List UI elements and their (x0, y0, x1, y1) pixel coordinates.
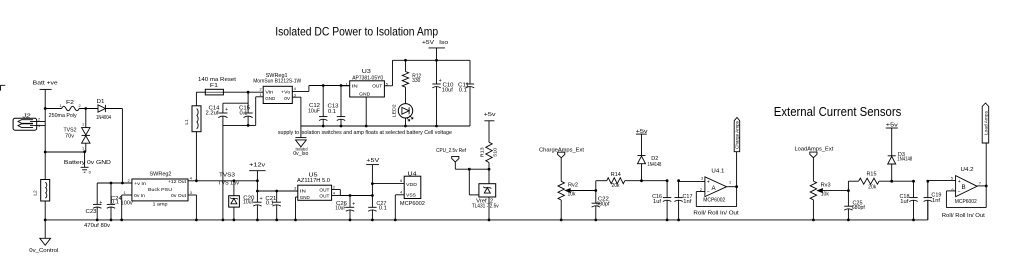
diode D3 1N4148 clamp (888, 155, 896, 157)
wire: main 0v bus (45, 219, 928, 221)
svg-text:B: B (962, 184, 966, 191)
svg-text:U4.1: U4.1 (711, 168, 724, 174)
wire: +12 column up to L1 (195, 132, 197, 181)
svg-text:F1: F1 (210, 83, 218, 89)
capacitor C24 0.1 100v (110, 183, 112, 204)
svg-text:3: 3 (701, 177, 703, 181)
svg-text:R15: R15 (867, 172, 877, 178)
svg-text:2: 2 (78, 104, 80, 108)
junction at Batt+ve column (44, 107, 47, 110)
svg-text:7: 7 (979, 181, 981, 185)
svg-text:10uf: 10uf (243, 200, 254, 206)
svg-text:+: + (958, 179, 961, 185)
svg-text:0v_Iso: 0v_Iso (293, 151, 308, 157)
svg-text:supply to isolation switches a: supply to isolation switches and amp flo… (278, 130, 452, 136)
svg-text:20k: 20k (868, 184, 876, 190)
svg-text:VSS: VSS (406, 192, 417, 198)
svg-text:Charge Amps: Charge Amps (735, 121, 740, 149)
wire: SWReg1 0V down to iso 0v rail (292, 96, 301, 98)
TVS2 70v bidirectional (85, 109, 87, 128)
svg-text:70v: 70v (65, 133, 74, 139)
wire: +batt into SWReg2 +v In (97, 182, 132, 184)
svg-text:+: + (352, 201, 355, 207)
svg-text:1: 1 (38, 124, 40, 128)
svg-text:330: 330 (412, 78, 420, 84)
svg-text:MCP6002: MCP6002 (955, 199, 977, 205)
svg-text:1uf: 1uf (653, 199, 662, 205)
svg-text:GND: GND (359, 92, 370, 98)
ground 0v_Iso isolated (300, 126, 302, 138)
wire: +5 control from U5 (340, 195, 372, 197)
svg-text:Roll/ Roll In/ Out: Roll/ Roll In/ Out (693, 211, 739, 217)
svg-text:3: 3 (294, 186, 296, 190)
svg-text:4: 4 (333, 192, 335, 196)
wire: SWReg2 0v Out down to bus (188, 194, 196, 196)
wire: U4.1 output (727, 186, 737, 188)
wire: SWReg1 input-side 0v return (223, 124, 256, 126)
svg-text:Battery 0v GND: Battery 0v GND (64, 160, 111, 166)
svg-text:L2: L2 (33, 190, 39, 196)
resistor R15 20k (859, 178, 880, 184)
wire: U5 OUT pins tied (332, 189, 341, 191)
wire: J2 pin2 (30, 121, 45, 123)
svg-text:Iso: Iso (439, 40, 448, 46)
svg-text:VDD: VDD (406, 182, 417, 188)
svg-text:TVS 16v: TVS 16v (218, 180, 240, 186)
resistor R14 20k (607, 178, 625, 184)
svg-text:SWReg2: SWReg2 (150, 172, 172, 178)
svg-text:Rv2: Rv2 (568, 183, 578, 189)
svg-text:U4.2: U4.2 (961, 167, 974, 173)
svg-text:1: 1 (729, 180, 731, 184)
inductor L2 (44, 152, 46, 180)
wire: +12 down to U5 feed line (256, 181, 258, 191)
potentiometer Rv3 10k (810, 181, 816, 200)
wire: battery column down (44, 109, 46, 153)
svg-text:0.1: 0.1 (379, 206, 387, 212)
svg-text:TL431 - 2.5v: TL431 - 2.5v (472, 203, 499, 209)
wire: F1 to SWReg1 Vin (223, 91, 263, 93)
label box Charge Amps (734, 117, 740, 151)
svg-text:0v Out: 0v Out (171, 193, 187, 199)
wire: +5 to U4 VDD (372, 183, 404, 185)
svg-text:4: 4 (400, 190, 402, 194)
svg-text:Vin: Vin (265, 89, 273, 95)
svg-text:0.1: 0.1 (328, 109, 336, 115)
svg-text:250ma Poly: 250ma Poly (49, 113, 77, 119)
svg-text:External Current Sensors: External Current Sensors (774, 105, 902, 119)
svg-text:100v: 100v (121, 201, 134, 207)
svg-text:20k: 20k (612, 183, 620, 189)
svg-text:GND: GND (265, 96, 275, 102)
svg-text:2: 2 (333, 185, 335, 189)
svg-text:0v_Control: 0v_Control (29, 248, 58, 254)
svg-text:4: 4 (190, 177, 192, 181)
svg-text:OUT: OUT (319, 194, 329, 200)
diode D2 1N4148 clamp (638, 155, 646, 157)
wiper of Rv2 (565, 189, 595, 193)
svg-text:Isolated DC Power to Isolation: Isolated DC Power to Isolation Amp (275, 24, 438, 38)
svg-text:AZ1117H 5.0: AZ1117H 5.0 (297, 178, 330, 184)
wire: U4 VSS to bus (395, 194, 404, 196)
wire: U3 GND down to iso 0v rail (365, 97, 367, 126)
junction: TVS2 top tap (84, 107, 87, 110)
svg-text:+5V: +5V (366, 158, 380, 164)
svg-text:10uf: 10uf (442, 88, 454, 94)
svg-text:Batt +ve: Batt +ve (33, 80, 58, 86)
svg-text:F2: F2 (66, 100, 74, 106)
svg-text:MornSun B1212S-1W: MornSun B1212S-1W (253, 79, 301, 85)
svg-text:0.1: 0.1 (459, 88, 467, 94)
sheet border marker (1, 85, 6, 90)
resistor R12 330 (405, 60, 407, 71)
svg-text:1nf: 1nf (932, 198, 941, 204)
svg-text:GND: GND (300, 195, 310, 201)
wire: U5 GND to bus (296, 196, 298, 198)
svg-text:+5v: +5v (886, 122, 898, 128)
inductor L1 (192, 106, 201, 132)
resistor R13 510 (486, 142, 492, 162)
label box Load Amps (982, 103, 989, 143)
svg-text:0V: 0V (284, 96, 291, 102)
capacitor C14 2.2uf (247, 92, 249, 113)
svg-text:Buck PSU: Buck PSU (148, 187, 172, 193)
svg-text:10uF: 10uF (335, 206, 346, 212)
wire: wiper up to signal rail (595, 181, 597, 191)
wire: to U4.1 +input (679, 180, 705, 182)
potentiometer Rv2 10k (558, 181, 564, 200)
wire: J2 pin1 (30, 125, 45, 127)
svg-text:CPU_2.5v Ref: CPU_2.5v Ref (436, 148, 466, 154)
svg-text:2.2uf: 2.2uf (206, 110, 220, 116)
svg-text:1: 1 (82, 123, 84, 127)
svg-text:+: + (225, 107, 228, 113)
wire: battery rail y=108.5 (45, 108, 61, 110)
svg-text:Load Amps: Load Amps (984, 111, 989, 135)
svg-text:C23: C23 (86, 209, 97, 215)
svg-text:2: 2 (259, 88, 261, 92)
svg-text:5: 5 (951, 177, 953, 181)
wire: U3 OUT up to +5iso rail (384, 85, 392, 87)
wire: U4.2 output (977, 185, 986, 187)
svg-text:LED2: LED2 (392, 104, 397, 117)
svg-text:1N4148: 1N4148 (647, 162, 661, 168)
svg-text:1 amp: 1 amp (153, 202, 168, 208)
svg-text:2: 2 (128, 179, 130, 183)
wire: to U4.2 +input (928, 180, 956, 182)
svg-text:+v In: +v In (134, 181, 146, 187)
svg-text:1N4148: 1N4148 (897, 156, 912, 162)
wire: wiper up to load signal rail (847, 181, 849, 190)
ground 0v_Control (44, 220, 46, 238)
svg-text:680pf: 680pf (852, 205, 866, 211)
svg-text:OUT: OUT (372, 84, 382, 90)
wire: SWReg1 +Vo jog up to +12iso rail (292, 90, 309, 92)
svg-text:1: 1 (259, 93, 261, 97)
wiper of Rv3 (818, 189, 849, 193)
svg-text:U3: U3 (362, 69, 371, 75)
svg-text:+: + (707, 179, 710, 185)
LED LED2 (405, 87, 407, 103)
svg-text:+5v: +5v (484, 112, 496, 118)
svg-text:1nf: 1nf (683, 199, 692, 205)
svg-text:R13: R13 (480, 147, 485, 158)
svg-text:+Vo: +Vo (281, 89, 290, 95)
svg-text:+: + (439, 78, 442, 84)
svg-text:+: + (260, 196, 263, 202)
wire: U4.2 -input feedback (946, 190, 955, 192)
wire: battery 0v segment y=152 (45, 151, 86, 153)
svg-text:1: 1 (123, 191, 125, 195)
svg-text:470uf 80v: 470uf 80v (84, 223, 110, 229)
svg-text:L1: L1 (184, 119, 190, 125)
svg-text:TVS3: TVS3 (219, 173, 235, 179)
svg-text:510: 510 (493, 147, 498, 157)
svg-text:Rv3: Rv3 (821, 183, 831, 189)
svg-text:0.1: 0.1 (111, 200, 119, 206)
svg-text:IN: IN (352, 84, 359, 90)
svg-text:1uf: 1uf (900, 199, 909, 205)
svg-text:10uF: 10uF (308, 108, 320, 114)
svg-text:R14: R14 (611, 172, 621, 178)
svg-text:4: 4 (294, 87, 296, 91)
svg-text:OUT: OUT (319, 188, 329, 194)
wire: U3 IN (341, 85, 350, 87)
capacitor C23 470uf 80v (96, 182, 98, 184)
wire: isolated 0v rail (301, 125, 470, 127)
wire: D1 cathode to corner and down to SWReg2 +v In (105, 108, 122, 110)
svg-text:−: − (958, 190, 961, 196)
wire: +12 feed to U5 IN (257, 190, 297, 192)
svg-text:−: − (707, 189, 710, 195)
wire: ref node (455, 168, 489, 170)
shunt reference Vref_2 TL431 - 2.5v (479, 184, 496, 197)
svg-text:Roll/ Roll In/ Out: Roll/ Roll In/ Out (942, 213, 986, 219)
svg-text:MCP6002: MCP6002 (703, 198, 725, 204)
svg-text:3: 3 (190, 191, 192, 195)
svg-text:0v In: 0v In (134, 193, 145, 199)
svg-text:1: 1 (59, 104, 61, 108)
svg-text:+: + (99, 200, 102, 206)
wire: SWReg2 0v In return (122, 194, 132, 196)
svg-text:1N4004: 1N4004 (96, 115, 111, 121)
wire: +12 rail SWReg2 to +12v tap (196, 180, 257, 182)
svg-text:6: 6 (400, 179, 402, 183)
svg-text:1: 1 (82, 147, 84, 151)
svg-text:+12 Out: +12 Out (168, 179, 187, 185)
wire: U4.1 -input feedback (696, 191, 705, 193)
wire: SWReg2 +12 Out (188, 180, 196, 182)
svg-text:IN: IN (300, 188, 307, 194)
wire: C14 column to 0v bus (222, 125, 224, 219)
wire: F2 to D1 (79, 108, 98, 110)
svg-text:+5V: +5V (422, 40, 434, 46)
svg-text:MCP6002: MCP6002 (400, 201, 425, 207)
svg-text:+12v: +12v (249, 163, 265, 169)
